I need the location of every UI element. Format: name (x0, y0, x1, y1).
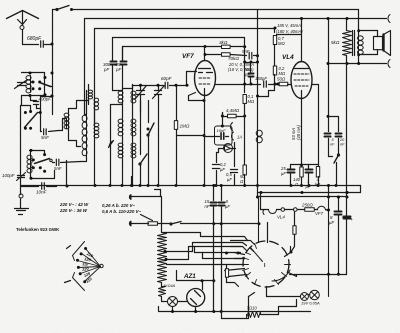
resistor rotary bias (226, 265, 228, 269)
switch contacts S3 (32, 158, 35, 161)
svg-text:µF: µF (225, 204, 230, 209)
wire rotary bottom (266, 287, 268, 297)
wire 1M to cathode (177, 135, 205, 137)
heater tap wires (163, 233, 248, 241)
rotary top wires (267, 223, 269, 243)
svg-text:µF: µF (227, 177, 232, 182)
wire column x131 (131, 177, 133, 186)
svg-text:50Ω: 50Ω (277, 77, 286, 82)
coil IFT1 primary (122, 91, 124, 103)
wire bus A corner right (358, 10, 360, 36)
wire antenna to switch (52, 10, 54, 45)
svg-text:MΩ: MΩ (248, 99, 255, 104)
svg-text:nF: nF (205, 204, 210, 209)
wire bus B y18.5 (85, 18, 387, 20)
coil L5b (94, 123, 96, 139)
capacitor 8uF b (338, 197, 340, 211)
svg-text:MΩ: MΩ (279, 71, 286, 76)
wire cap top link (328, 186, 330, 197)
capacitor 60pF (133, 85, 164, 87)
coil L3 (30, 155, 32, 173)
svg-text:10nF: 10nF (217, 128, 227, 133)
heater VF7 (317, 206, 325, 210)
wire bottom bus (159, 311, 311, 313)
wire VF7 cathode column (204, 96, 206, 186)
svg-text:0,6 A b. 110-220 V~: 0,6 A b. 110-220 V~ (102, 209, 141, 214)
resistor hum (294, 212, 296, 226)
coil IFT2 secondary (132, 119, 134, 137)
wire x67 column (66, 119, 68, 129)
capacitor 200pF (250, 63, 252, 73)
wire corner B left (84, 19, 86, 115)
capacitor 8uF a (221, 186, 223, 201)
rotary feed wires (231, 247, 247, 251)
wire corner B down to coil (85, 114, 87, 116)
voltage selector fan (73, 242, 85, 261)
svg-text:µF: µF (220, 167, 225, 172)
svg-text:0,26 A b. 220 V~: 0,26 A b. 220 V~ (102, 203, 135, 208)
coil IFT3 primary (122, 143, 124, 159)
svg-text:150pF: 150pF (255, 76, 267, 81)
capacitor 5nF osc (41, 131, 42, 133)
dot VF7 top (204, 45, 207, 48)
trimmer T1 (137, 90, 145, 92)
resistor 70k (205, 54, 221, 56)
wire y274 node (290, 274, 347, 276)
transformer secondary (358, 36, 360, 55)
switch tone (337, 154, 339, 156)
wire bus D y37.5 (113, 37, 245, 39)
coil L4a (68, 113, 70, 129)
svg-text:1A: 1A (237, 135, 242, 140)
wire corner D left (112, 38, 114, 61)
resistor 50 grid (279, 82, 288, 85)
wire VF7 cathode hook (189, 93, 205, 101)
wire 400pF drop (40, 105, 42, 132)
wire secondary to speaker (359, 30, 378, 32)
svg-text:19V 0,05A: 19V 0,05A (301, 301, 320, 306)
svg-text:VF7: VF7 (315, 211, 324, 216)
coil L1 (30, 76, 32, 93)
coil L5c (94, 99, 96, 111)
wire x318 column (313, 84, 319, 86)
shield box detector (215, 126, 233, 145)
capacitor 300pF (112, 60, 114, 62)
terminal ext bottom (388, 60, 390, 68)
wire heater drop (260, 193, 262, 210)
svg-text:220 V~ : 42 W: 220 V~ : 42 W (59, 202, 89, 207)
diode detector (225, 146, 231, 151)
wire corner E left (122, 47, 124, 61)
tube VF7 (195, 61, 216, 96)
coil IFT2 primary (122, 119, 124, 137)
capacitor 10nF det (205, 136, 220, 138)
svg-text:VF7: VF7 (182, 53, 194, 60)
coil top small (88, 91, 90, 99)
switch contacts S1 (32, 81, 35, 84)
fuse (148, 222, 158, 226)
svg-text:4KΩ4A: 4KΩ4A (163, 284, 176, 288)
switch mains (170, 223, 172, 225)
wire VL4 cathode (301, 99, 303, 186)
capacitor 0,2uF (216, 161, 218, 163)
lamp scale (168, 297, 178, 307)
trimmer T2 (155, 90, 162, 92)
capacitor 20nF tone (329, 117, 339, 132)
svg-text:(180 V, 40mA): (180 V, 40mA) (276, 29, 303, 34)
switch S5 (139, 163, 141, 165)
coil choke (257, 131, 259, 143)
capacitor 1uF (308, 165, 310, 169)
svg-text:nF: nF (340, 143, 345, 147)
wire choke column (257, 10, 259, 131)
svg-text:185 V, 45mA: 185 V, 45mA (277, 23, 301, 28)
resistor 250 (305, 208, 315, 211)
capacitor 680pF (23, 44, 39, 46)
rotary switch (243, 241, 289, 287)
wire left col x52 (52, 45, 54, 115)
rotary right arc (272, 270, 290, 281)
switch mains antenna (56, 8, 58, 10)
wire VF7 grid (186, 72, 188, 86)
svg-text:Telefunken 923 GWK: Telefunken 923 GWK (16, 227, 60, 232)
svg-text:7Ω10: 7Ω10 (247, 306, 258, 311)
wire column x140 (140, 101, 142, 155)
capacitor 150pF (251, 84, 261, 86)
lamp dial 2 (310, 290, 320, 300)
trimmer capacitor C-ant (18, 82, 26, 84)
wire lamp branch (158, 307, 160, 311)
resistor 0,7M (273, 36, 276, 45)
wire column x148 (148, 101, 150, 123)
wire corner C left (94, 29, 96, 127)
transformer core (352, 31, 354, 56)
wire bus A y9.5 (72, 9, 359, 11)
tube AZ1 (187, 289, 205, 307)
resistor 3k (222, 45, 231, 48)
wire x259 to rotary (257, 193, 259, 197)
svg-text:5kΩ: 5kΩ (331, 40, 340, 45)
wire bus E y46.5 (123, 46, 205, 48)
svg-text:VL4: VL4 (277, 215, 285, 220)
capacitor 400pF (30, 96, 32, 101)
svg-text:nF: nF (330, 143, 335, 147)
resistor 7ohm (221, 311, 223, 319)
svg-text:10nF: 10nF (36, 190, 48, 195)
resistor 0,2M (273, 66, 276, 75)
svg-text:µF: µF (329, 220, 335, 225)
capacitor 5nF tone (325, 133, 331, 135)
mains lead 2 (131, 223, 149, 225)
tuned circuit 3 frame (30, 151, 45, 155)
capacitor 5nF band (53, 162, 55, 164)
resistor 1M (176, 86, 178, 121)
tube VL4 (291, 62, 312, 99)
wire x328 column (328, 19, 330, 117)
switch S4 (147, 134, 149, 136)
wire bus C y28 (95, 28, 275, 30)
svg-text:MΩ: MΩ (278, 41, 285, 46)
resistor 4k (316, 167, 319, 178)
svg-text:5nF: 5nF (54, 166, 62, 171)
wire AZ1 top (202, 281, 204, 290)
svg-text:5nF: 5nF (41, 135, 50, 140)
coupling arrow (109, 141, 114, 148)
coil IFT1 secondary (132, 91, 134, 103)
capacitor 8uF c (346, 64, 348, 216)
speaker (374, 37, 383, 50)
wire bus lower (258, 192, 361, 194)
svg-text:3kΩ: 3kΩ (219, 40, 228, 45)
tuned circuit 1 frame (22, 73, 45, 106)
svg-text:70kΩ: 70kΩ (228, 56, 239, 61)
wire detector top (222, 113, 224, 127)
coil IFT3 secondary (132, 143, 134, 159)
trimmer capacitor C3 (20, 151, 22, 175)
ground chassis (20, 187, 22, 195)
heater VL4 (263, 210, 264, 215)
wire x110 column (111, 105, 123, 186)
capacitor 0,5uF (234, 143, 236, 167)
coil L5a (86, 115, 88, 157)
resistor dropper (161, 197, 163, 233)
svg-text:680pF: 680pF (27, 36, 42, 42)
svg-text:AZ1: AZ1 (183, 273, 196, 280)
transformer primary (346, 19, 348, 31)
svg-text:pF: pF (115, 67, 121, 72)
svg-text:220 V- : 36 W: 220 V- : 36 W (59, 208, 88, 213)
wire grid stopper (290, 84, 292, 86)
capacitor 15nF (213, 186, 215, 201)
svg-text:20: 20 (339, 138, 345, 142)
svg-text:(48 mA): (48 mA) (296, 125, 301, 140)
resistor lamp section (159, 287, 166, 297)
svg-text:VL4: VL4 (282, 54, 294, 61)
lamp dial 1 (300, 293, 308, 301)
capacitor 25pF (121, 61, 127, 63)
resistor 50 cath (244, 121, 246, 165)
svg-text:5nF: 5nF (242, 49, 250, 54)
mains lead 1 (131, 196, 161, 198)
svg-text:4,4MΩ: 4,4MΩ (226, 108, 240, 113)
wire to coils mid (59, 119, 67, 131)
wire main bus (21, 185, 361, 187)
capacitor 25uF (290, 165, 292, 169)
wire coil links (69, 101, 89, 109)
wire coil bank top (113, 90, 123, 92)
antenna (7, 11, 39, 19)
wire bus C corner (274, 29, 276, 33)
wire VF7 anode out (216, 84, 251, 86)
heater connector circles (281, 208, 285, 212)
resistor 140 (301, 164, 303, 166)
resistor 0,1M (244, 63, 246, 93)
svg-text:1MΩ: 1MΩ (180, 124, 190, 129)
svg-text:pF: pF (103, 67, 109, 72)
svg-text:60pF: 60pF (161, 76, 173, 81)
switch S2 blade (25, 113, 38, 128)
capacitor 5nF anode (248, 53, 250, 59)
svg-text:100pF: 100pF (2, 173, 15, 178)
svg-text:250Ω: 250Ω (301, 203, 313, 208)
terminal ext top (388, 15, 390, 23)
svg-text:µF: µF (281, 171, 286, 176)
svg-text:+: + (351, 217, 354, 222)
wire column x159 (158, 101, 160, 186)
wire bus D corner down (244, 38, 246, 47)
capacitor 10nF (21, 186, 39, 188)
jack phone upper (231, 123, 233, 131)
